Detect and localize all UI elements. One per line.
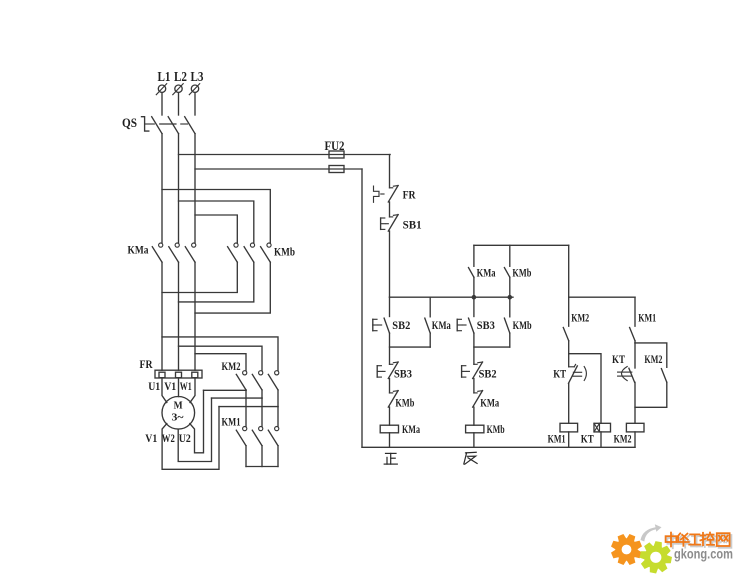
svg-text:KT: KT bbox=[581, 434, 594, 446]
svg-text:SB2: SB2 bbox=[479, 367, 497, 381]
wire KM1-branch top bbox=[568, 297, 570, 326]
svg-text:QS: QS bbox=[122, 116, 137, 130]
wire KM1 pole2 feed bbox=[261, 398, 263, 426]
wire KM2 coil to bus bbox=[634, 432, 636, 447]
wire SB1 to feed bus bbox=[389, 231, 391, 297]
wire to FU2 fuse 1 bbox=[179, 154, 391, 156]
wire SB3 parallel bottom bbox=[474, 346, 510, 348]
svg-text:SB1: SB1 bbox=[403, 218, 422, 232]
wire node a to KM2 pole1 bbox=[204, 389, 247, 391]
wire KT coil to bus bbox=[600, 432, 602, 447]
contactor KM2 main pole 1 bbox=[243, 371, 247, 375]
svg-text:KM1: KM1 bbox=[638, 313, 656, 325]
motor M bbox=[162, 397, 195, 430]
wire node b to KM2 pole2 bbox=[212, 397, 263, 399]
svg-text:V1: V1 bbox=[145, 433, 157, 445]
svg-text:KM2: KM2 bbox=[222, 359, 241, 373]
wire L3 stub bbox=[194, 93, 196, 115]
wire fuse1 to FR contact bbox=[389, 155, 392, 188]
pushbutton SB3 (NC interlock) bbox=[376, 366, 378, 377]
wire node c to KM2 pole3 bbox=[219, 406, 278, 408]
wire motor W2 loop middle bbox=[178, 398, 211, 461]
wire to KMa coil bbox=[389, 407, 391, 425]
svg-text:KMa: KMa bbox=[128, 243, 149, 257]
label forward bbox=[384, 453, 397, 464]
wire KM1 contact junction bbox=[634, 341, 636, 343]
wire L3 crossover to KMb pole1 bbox=[195, 215, 237, 243]
time relay contact KT (NO delayed) bbox=[634, 343, 636, 368]
contactor KM2 main pole 2 bbox=[259, 371, 263, 375]
wire KT contact to KM2 coil bbox=[634, 382, 636, 423]
svg-text:W1: W1 bbox=[180, 381, 192, 393]
wire control bottom bus bbox=[362, 446, 635, 448]
interlock contact KMb (NC) bbox=[390, 392, 393, 394]
wire FR to motor W1 bbox=[190, 378, 195, 403]
coil KMa bbox=[380, 425, 398, 433]
svg-text:U2: U2 bbox=[179, 433, 191, 445]
wire SB2 to KMa interlock bbox=[473, 379, 475, 393]
svg-text:KMa: KMa bbox=[477, 268, 496, 280]
wire KM2-branch top bbox=[634, 297, 636, 326]
wire KT coil arm bbox=[569, 354, 601, 424]
svg-text:M: M bbox=[174, 400, 184, 412]
auxiliary contact KMb (NO) bbox=[509, 245, 511, 266]
svg-text:gkong.com: gkong.com bbox=[674, 547, 733, 562]
svg-text:KMa: KMa bbox=[402, 424, 420, 436]
wire L2 crossover to KMb pole2 bbox=[179, 201, 254, 243]
svg-text:FR: FR bbox=[140, 357, 153, 371]
wire L2 stub bbox=[178, 93, 180, 115]
contactor KMb main pole 2 bbox=[250, 243, 254, 247]
wire phase 2 QS to KMa bbox=[178, 134, 180, 243]
wire phase1 to KM2 pole3 bbox=[162, 337, 278, 371]
wire KM2 pole2 output bbox=[261, 390, 263, 398]
wire branch2 top bbox=[473, 297, 475, 316]
wire aux top line bbox=[474, 244, 569, 246]
label reverse bbox=[464, 452, 477, 464]
svg-text:U1: U1 bbox=[148, 381, 160, 393]
watermark site name bbox=[667, 534, 731, 548]
svg-text:SB3: SB3 bbox=[394, 367, 412, 381]
wire to KMb coil bbox=[473, 407, 475, 425]
holding contact KMb (NO) bbox=[509, 297, 511, 317]
wire L1 crossover to KMb pole3 bbox=[162, 190, 270, 243]
holding contact KMa (NO) bbox=[429, 297, 431, 317]
svg-text:V1: V1 bbox=[164, 381, 176, 393]
contactor KMb main pole 3 bbox=[267, 243, 271, 247]
wire FR to motor U1 bbox=[162, 378, 167, 403]
wire KM2 pole1 output bbox=[245, 389, 247, 391]
wire SB2 parallel bottom bbox=[390, 346, 431, 348]
wire KM2 holding arm top bbox=[635, 343, 667, 367]
wire KM1 star point bus bbox=[245, 446, 247, 467]
wire KM1 pole1 feed bbox=[245, 390, 247, 426]
wire KT contact to KM1 coil bbox=[568, 383, 570, 423]
wire right feed segment bbox=[569, 296, 635, 298]
wire branch2 mid bbox=[473, 333, 475, 364]
wire KMa pole3 output bbox=[194, 262, 196, 370]
svg-text:L3: L3 bbox=[191, 70, 204, 85]
wire branch1 mid bbox=[389, 333, 391, 364]
wire KMb pole2 output join bbox=[179, 262, 254, 302]
svg-text:KT: KT bbox=[553, 369, 566, 381]
auxiliary contact KMa (NO) bbox=[473, 245, 475, 266]
time relay contact KT (NC delayed) bbox=[568, 354, 570, 367]
svg-text:KMb: KMb bbox=[395, 398, 414, 410]
contactor KM2 main pole 3 bbox=[275, 371, 279, 375]
thermal relay FR control contact bbox=[374, 186, 380, 202]
contactor KMa main pole 2 bbox=[175, 243, 179, 247]
svg-text:L1: L1 bbox=[158, 70, 171, 85]
wire KMa coil to bus bbox=[389, 433, 391, 448]
wire to FU2 fuse 2 bbox=[195, 168, 362, 170]
watermark gears and arrow bbox=[641, 524, 662, 541]
contactor KM1 main pole 1 bbox=[243, 427, 247, 431]
wire L1 stub bbox=[161, 93, 163, 115]
svg-text:W2: W2 bbox=[162, 433, 175, 445]
wire phase2 to KM2 pole2 bbox=[179, 346, 263, 370]
sequence contact KM1 (NO) bbox=[630, 328, 635, 341]
svg-text:3~: 3~ bbox=[172, 412, 184, 424]
svg-text:KMb: KMb bbox=[513, 320, 532, 332]
svg-text:KMa: KMa bbox=[432, 320, 451, 332]
interlock contact KMa (NC) bbox=[474, 392, 477, 394]
fuse FU2 element 1 bbox=[329, 151, 344, 158]
wire branch1 top bbox=[389, 297, 391, 316]
wire phase 1 QS to KMa bbox=[161, 134, 163, 243]
wire KM1 pole3 feed bbox=[277, 407, 279, 427]
coil KM2 bbox=[626, 423, 644, 432]
svg-text:KMb: KMb bbox=[512, 268, 531, 280]
svg-text:KM2: KM2 bbox=[614, 434, 632, 446]
wire KMa pole2 output bbox=[178, 262, 180, 370]
contactor KM1 main pole 3 bbox=[275, 427, 279, 431]
wire FR to SB1 bbox=[389, 202, 391, 217]
pushbutton SB1 (stop, NC) bbox=[380, 218, 382, 229]
svg-text:SB3: SB3 bbox=[477, 318, 495, 332]
node junction dot a bbox=[472, 295, 477, 300]
pushbutton SB2 (forward start, NO) bbox=[372, 319, 374, 330]
sequence contact KM2 (NO) bbox=[563, 328, 568, 341]
contactor KMa main pole 1 bbox=[159, 243, 163, 247]
svg-text:KT: KT bbox=[612, 354, 625, 366]
svg-text:SB2: SB2 bbox=[392, 318, 410, 332]
contactor KMa main pole 3 bbox=[192, 243, 196, 247]
wire SB3 to KMb interlock bbox=[389, 379, 391, 393]
svg-text:KMb: KMb bbox=[487, 424, 505, 436]
wire motor U2 loop inner bbox=[190, 390, 204, 453]
contactor KM1 main pole 2 bbox=[259, 427, 263, 431]
coil KM1 bbox=[560, 423, 578, 432]
thermal overload FR body bbox=[155, 370, 202, 378]
wire feed bus after SB1 bbox=[390, 296, 514, 298]
svg-text:KM2: KM2 bbox=[644, 354, 662, 366]
fuse FU2 element 2 bbox=[329, 166, 344, 173]
wire KMb coil to bus bbox=[473, 433, 475, 448]
wire phase3 to KM2 pole1 bbox=[195, 354, 246, 371]
svg-text:L2: L2 bbox=[174, 70, 187, 85]
wire KMb pole3 output join bbox=[195, 262, 270, 313]
wire FR to motor V1 bbox=[178, 378, 180, 397]
svg-text:KM1: KM1 bbox=[222, 415, 241, 429]
coil KT bbox=[594, 423, 611, 432]
svg-text:KMa: KMa bbox=[480, 398, 499, 410]
wire motor V1 loop outer bbox=[162, 407, 219, 470]
wire KM2 pole3 output bbox=[277, 390, 279, 407]
pushbutton SB3 (reverse start, NO) bbox=[456, 319, 458, 330]
wire phase 3 QS to KMa bbox=[194, 134, 196, 243]
svg-text:KM2: KM2 bbox=[571, 313, 589, 325]
node junction dot b bbox=[508, 295, 513, 300]
wire KMa pole1 output bbox=[161, 262, 163, 370]
svg-text:FR: FR bbox=[403, 188, 416, 202]
svg-text:KMb: KMb bbox=[274, 245, 295, 259]
contactor KMb main pole 1 bbox=[234, 243, 238, 247]
pushbutton SB2 (NC interlock) bbox=[461, 366, 463, 377]
holding contact KM2 (NO) bbox=[661, 369, 666, 383]
coil KMb bbox=[466, 425, 484, 433]
wire KM1 coil to bus bbox=[568, 432, 570, 447]
wire KMb pole1 output join bbox=[162, 262, 237, 292]
wire KM2 contact to KT junction bbox=[568, 341, 570, 354]
wire control left rail bbox=[361, 169, 363, 447]
wire KM2 arm rejoin bbox=[635, 382, 667, 407]
svg-text:KM1: KM1 bbox=[548, 434, 566, 446]
